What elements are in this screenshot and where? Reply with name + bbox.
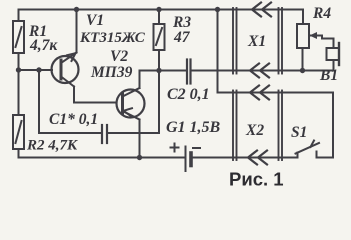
wire left rail lower [18, 149, 20, 158]
wire left rail mid [18, 53, 20, 115]
battery minus [192, 147, 201, 149]
svg-text:V2: V2 [110, 48, 128, 65]
svg-text:X2: X2 [245, 122, 264, 139]
transistor V1 [52, 53, 79, 87]
wire bottom rail mid [191, 157, 298, 159]
connector X2 right bars [278, 91, 280, 161]
svg-text:X1: X1 [247, 33, 266, 50]
connector X1 top arrows [252, 3, 261, 17]
connector X2 left bars [232, 91, 234, 161]
wire X2 top [218, 92, 334, 94]
wire V1 base [19, 69, 53, 71]
svg-text:4,7к: 4,7к [29, 37, 58, 54]
wire S1 right side [332, 93, 334, 158]
svg-text:КТ315ЖС: КТ315ЖС [79, 30, 146, 46]
connector X1 right bars [278, 8, 280, 74]
earphone B1 [327, 48, 340, 60]
wire J1 to C2 [159, 70, 187, 72]
wire V1 emitter up [76, 10, 78, 53]
svg-text:С2 0,1: С2 0,1 [167, 86, 210, 103]
connector X1 bottom arrows [250, 64, 259, 78]
svg-text:МП39: МП39 [90, 64, 133, 81]
wire C1 right [107, 132, 159, 134]
potentiometer R4 [297, 24, 309, 48]
wire bottom rail left [19, 157, 186, 159]
svg-text:R4: R4 [312, 5, 331, 22]
svg-text:V1: V1 [86, 12, 104, 29]
svg-text:Рис. 1: Рис. 1 [229, 169, 284, 190]
wire V2 collector up [139, 71, 141, 89]
wire top rail [19, 9, 304, 11]
wire C2 to X1 bottom and B1 [191, 70, 334, 72]
resistor R3 [154, 24, 165, 50]
wire V1 collector to V2 base [73, 87, 75, 103]
capacitor C2 [186, 60, 188, 84]
connector X2 top arrows [250, 86, 259, 100]
resistor R2 [13, 115, 24, 149]
svg-text:47: 47 [173, 29, 191, 46]
wire vertical bus x217 [217, 10, 219, 93]
wire R3 bottom [158, 50, 160, 71]
svg-text:В1: В1 [319, 67, 338, 84]
wire C1 branch vertical [38, 70, 40, 133]
svg-text:С1* 0,1: С1* 0,1 [49, 111, 98, 128]
wire left rail upper [18, 10, 20, 22]
battery plus [170, 143, 180, 153]
wire V2 emitter down [139, 120, 141, 158]
battery G1 [185, 147, 187, 172]
svg-text:G1 1,5В: G1 1,5В [166, 119, 221, 136]
transistor V2 [117, 88, 145, 120]
wire R3 top [158, 10, 160, 25]
svg-text:S1: S1 [291, 124, 307, 141]
wire C1 left [39, 132, 102, 134]
switch S1 [297, 153, 299, 158]
connector X2 bottom arrows [248, 151, 257, 165]
resistor R1 [13, 21, 24, 53]
R4 wiper arrow [311, 35, 322, 37]
connector X1 left bars [232, 8, 234, 74]
svg-text:R2 4,7К: R2 4,7К [26, 138, 78, 154]
capacitor C1 [101, 125, 103, 143]
